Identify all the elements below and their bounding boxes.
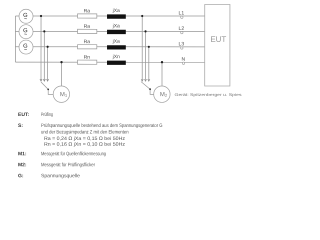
svg-text:jXa: jXa	[112, 8, 120, 14]
svg-text:Rn = 0,16 Ω jXn = 0,10 Ω be: Rn = 0,16 Ω jXn = 0,10 Ω bei 50Hz	[44, 142, 126, 148]
svg-text:Prüfling: Prüfling	[41, 112, 53, 118]
svg-text:S:: S:	[18, 123, 23, 129]
svg-text:M2:: M2:	[18, 162, 27, 168]
svg-text:Messgerät für Quellenflickerme: Messgerät für Quellenflickermessung	[41, 151, 106, 157]
svg-text:~: ~	[24, 17, 28, 23]
svg-text:Spannungsquelle: Spannungsquelle	[41, 173, 80, 179]
svg-text:Gerät: Spitzenberger u. Spies: Gerät: Spitzenberger u. Spies	[174, 92, 241, 97]
svg-text:EUT: EUT	[210, 35, 226, 44]
svg-text:M1:: M1:	[18, 151, 27, 157]
svg-text:~: ~	[24, 32, 28, 38]
svg-text:Messgerät für Prüflingsflicker: Messgerät für Prüflingsflicker	[41, 162, 95, 168]
svg-text:M1: M1	[60, 92, 68, 98]
svg-text:L2: L2	[179, 26, 185, 32]
svg-text:L1: L1	[179, 11, 185, 17]
svg-text:Rn: Rn	[84, 55, 91, 61]
svg-text:~: ~	[24, 47, 28, 53]
svg-text:EUT:: EUT:	[18, 112, 29, 118]
svg-text:jXa: jXa	[112, 23, 120, 29]
svg-text:M2: M2	[160, 92, 168, 98]
svg-text:Prüfspannungsquelle bestehend: Prüfspannungsquelle bestehend aus dem Sp…	[41, 123, 163, 129]
svg-text:und der Bezugsimpedanz Z mit d: und der Bezugsimpedanz Z mit den Element…	[41, 129, 129, 135]
svg-text:Ra: Ra	[84, 8, 91, 14]
svg-text:jXn: jXn	[112, 54, 120, 60]
svg-text:L3: L3	[179, 41, 185, 47]
svg-text:jXa: jXa	[112, 39, 120, 45]
svg-text:G:: G:	[18, 173, 24, 179]
svg-text:Ra: Ra	[84, 39, 91, 45]
svg-text:Ra: Ra	[84, 24, 91, 30]
svg-text:N: N	[181, 57, 185, 63]
